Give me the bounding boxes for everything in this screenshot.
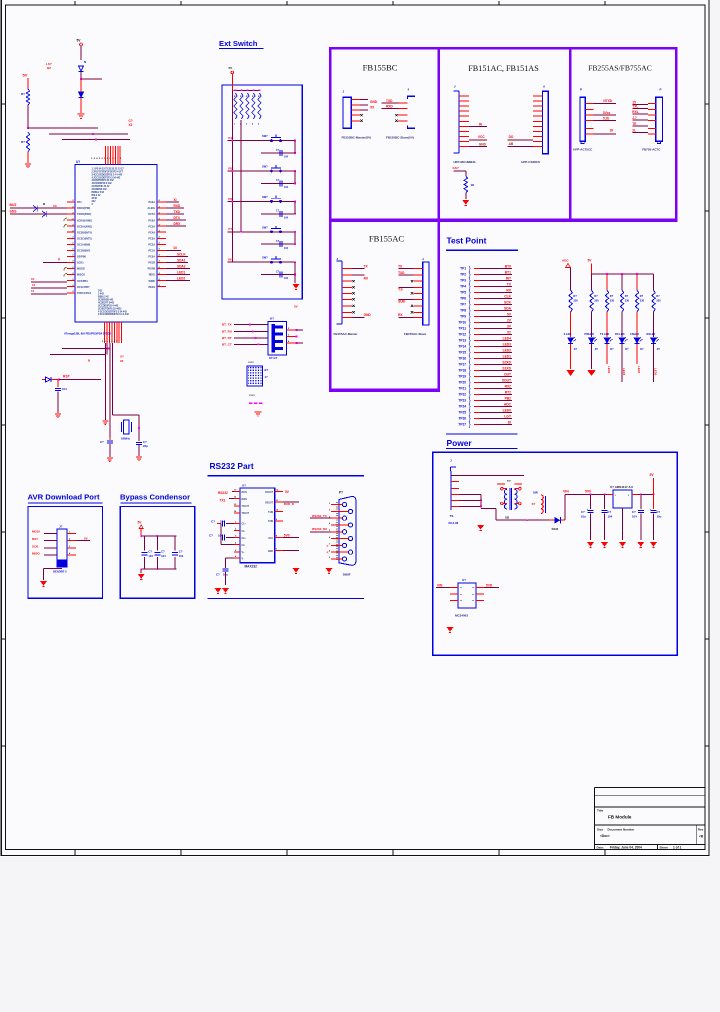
microcontroller U1 ATmega128 body bbox=[75, 165, 157, 323]
svg-text:DI: DI bbox=[610, 128, 613, 132]
resistor R5 bbox=[590, 290, 593, 312]
svg-text:INT: INT bbox=[506, 277, 511, 281]
LED D7 bbox=[619, 337, 627, 343]
svg-text:K?: K? bbox=[270, 317, 274, 321]
title block frame bbox=[595, 787, 705, 849]
section bottom line bbox=[208, 598, 365, 600]
svg-text:SDA1: SDA1 bbox=[177, 258, 186, 262]
svg-text:104: 104 bbox=[284, 247, 289, 250]
wire bbox=[653, 312, 655, 337]
svg-text:RS232: RS232 bbox=[218, 491, 228, 495]
pin bbox=[451, 481, 459, 483]
svg-text:MC34063: MC34063 bbox=[455, 614, 468, 618]
wire PD7 bbox=[31, 293, 67, 295]
wire bbox=[80, 79, 82, 92]
svg-text:C?: C? bbox=[657, 510, 661, 514]
svg-text:D?: D? bbox=[657, 348, 661, 351]
pin bbox=[459, 130, 469, 132]
wire bbox=[310, 517, 331, 519]
svg-text:RS232_RX: RS232_RX bbox=[312, 527, 327, 531]
svg-text:MOSI: MOSI bbox=[32, 530, 40, 534]
svg-text:104: 104 bbox=[62, 387, 67, 391]
svg-text:BT_RT: BT_RT bbox=[222, 336, 232, 340]
Bypass box bbox=[120, 506, 194, 598]
wire bbox=[27, 152, 29, 163]
svg-text:330: 330 bbox=[573, 299, 578, 303]
capacitor C11 bbox=[280, 180, 282, 186]
wire bbox=[480, 412, 512, 414]
pin bbox=[342, 274, 352, 276]
svg-text:10u: 10u bbox=[657, 515, 662, 519]
wire bbox=[436, 587, 450, 589]
svg-text:TP8: TP8 bbox=[460, 309, 466, 313]
svg-text:Date:: Date: bbox=[597, 846, 605, 850]
wire bbox=[28, 127, 98, 129]
pin bbox=[533, 105, 543, 107]
capacitor C20 bbox=[174, 536, 176, 551]
svg-text:R2IN: R2IN bbox=[242, 499, 248, 501]
svg-text:R?: R? bbox=[640, 294, 644, 298]
svg-text:C?: C? bbox=[276, 240, 280, 243]
ground bbox=[587, 542, 594, 547]
pin bbox=[414, 298, 423, 300]
svg-text:RX LED: RX LED bbox=[615, 332, 625, 336]
svg-text:HEADER 5: HEADER 5 bbox=[53, 570, 67, 574]
svg-text:BUZ: BUZ bbox=[10, 203, 17, 207]
svg-text:DO: DO bbox=[509, 135, 514, 139]
svg-text:HFP-MC183BXL: HFP-MC183BXL bbox=[454, 160, 477, 164]
wire bbox=[480, 364, 512, 366]
svg-text:FB155AC: FB155AC bbox=[369, 234, 405, 244]
ground bbox=[215, 588, 222, 593]
svg-text:+: + bbox=[650, 507, 652, 511]
svg-text:330: 330 bbox=[625, 299, 630, 303]
LED D5 bbox=[589, 337, 597, 343]
svg-text:T?: T? bbox=[507, 479, 511, 483]
svg-text:C?: C? bbox=[179, 550, 183, 554]
vertical bus wire 1 bbox=[231, 90, 233, 262]
wire bbox=[636, 344, 638, 364]
pin bbox=[450, 587, 458, 589]
wire bbox=[606, 344, 608, 364]
wire bbox=[459, 499, 481, 501]
U1 left pins bbox=[67, 202, 75, 293]
svg-text:TP25: TP25 bbox=[458, 411, 466, 415]
svg-text:}: } bbox=[469, 423, 471, 429]
wire bbox=[594, 133, 617, 135]
svg-text:PEN1: PEN1 bbox=[148, 286, 155, 289]
svg-text:LED4: LED4 bbox=[503, 337, 512, 341]
svg-text:5V: 5V bbox=[23, 73, 28, 78]
wire bottom rail bbox=[141, 568, 176, 570]
pin bbox=[648, 128, 656, 130]
svg-text:N: N bbox=[84, 60, 86, 64]
ground bbox=[462, 200, 469, 205]
svg-text:OC3B/(INT4): OC3B/(INT4) bbox=[77, 231, 92, 234]
svg-text:11: 11 bbox=[32, 283, 36, 287]
ground bbox=[40, 581, 47, 586]
LED D6 bbox=[604, 337, 612, 343]
pin bbox=[451, 494, 459, 496]
wire SDA2 bbox=[166, 268, 190, 270]
svg-text:P5: P5 bbox=[228, 166, 232, 170]
svg-text:11: 11 bbox=[31, 289, 35, 293]
ground bbox=[447, 627, 454, 632]
svg-text:330: 330 bbox=[656, 299, 661, 303]
pin bbox=[342, 286, 352, 288]
title underline bbox=[446, 249, 518, 251]
wire bbox=[221, 544, 234, 546]
svg-text:MAX232: MAX232 bbox=[245, 565, 258, 569]
ground bbox=[222, 588, 229, 593]
svg-text:5Vcc: 5Vcc bbox=[603, 111, 611, 115]
svg-text:T.b: T.b bbox=[398, 287, 402, 291]
svg-text:SW?: SW? bbox=[262, 225, 268, 229]
wire bbox=[480, 352, 512, 354]
svg-text:TP20: TP20 bbox=[458, 381, 466, 385]
svg-text:SCLK: SCLK bbox=[177, 252, 186, 256]
wire bbox=[632, 104, 648, 106]
svg-text:XI: XI bbox=[174, 198, 177, 202]
section divider line bbox=[446, 433, 518, 435]
svg-text:1 4 4 5 2 5 2 6 2 5 3 4: 1 4 4 5 2 5 2 6 2 5 3 4 bbox=[91, 157, 122, 160]
svg-text:AVR Download Port: AVR Download Port bbox=[28, 493, 100, 502]
svg-text:RST: RST bbox=[32, 537, 38, 541]
wire bottom rail bbox=[496, 519, 532, 521]
wire DI bbox=[166, 249, 181, 251]
svg-text:LED1: LED1 bbox=[503, 355, 512, 359]
svg-text:104: 104 bbox=[608, 515, 613, 519]
svg-text:P: P bbox=[580, 88, 582, 92]
wire bbox=[283, 537, 299, 539]
capacitor C13 bbox=[640, 494, 642, 509]
ground bbox=[587, 370, 595, 376]
wire BUZ to U1 bbox=[10, 207, 67, 209]
svg-text:16MHz: 16MHz bbox=[121, 437, 130, 441]
wire bbox=[480, 268, 512, 270]
svg-text:5V0: 5V0 bbox=[284, 533, 290, 537]
svg-text:RD/G: RD/G bbox=[149, 274, 155, 277]
svg-text:PC6A: PC6A bbox=[148, 219, 155, 222]
svg-text:C?: C? bbox=[148, 550, 152, 554]
ground bbox=[293, 568, 300, 573]
svg-text:FB155BC-Slave(5V): FB155BC-Slave(5V) bbox=[386, 136, 414, 140]
vertical bus wire 2 bbox=[240, 120, 242, 232]
svg-text:P: P bbox=[660, 88, 662, 92]
resistor R3 bbox=[464, 176, 467, 193]
svg-text:TP27: TP27 bbox=[458, 423, 466, 427]
svg-text:LED3: LED3 bbox=[503, 343, 512, 347]
module box frame purple bbox=[329, 47, 677, 392]
svg-text:T2OUT: T2OUT bbox=[242, 513, 250, 515]
switch row 5 wire bbox=[228, 261, 296, 263]
resistor R6 bbox=[605, 290, 608, 312]
svg-text:C2+: C2+ bbox=[242, 538, 247, 540]
ground bbox=[255, 412, 262, 416]
svg-text:BT0: BT0 bbox=[505, 265, 511, 269]
svg-text:R?: R? bbox=[625, 294, 629, 298]
diode D2 bbox=[79, 92, 84, 97]
svg-text:DI: DI bbox=[174, 246, 177, 250]
pin bbox=[234, 551, 240, 553]
ground bbox=[293, 284, 300, 289]
svg-text:U?: U? bbox=[242, 484, 246, 488]
svg-text:Power: Power bbox=[447, 438, 473, 448]
pin bbox=[351, 114, 360, 116]
svg-text:Document Number: Document Number bbox=[608, 827, 636, 831]
svg-text:TP23: TP23 bbox=[458, 399, 466, 403]
pin bbox=[585, 114, 593, 116]
title underline bbox=[120, 502, 191, 504]
pin bbox=[459, 141, 469, 143]
wire bbox=[480, 495, 482, 507]
svg-text:TP9: TP9 bbox=[460, 315, 466, 319]
wire bbox=[294, 201, 296, 213]
pin bbox=[533, 130, 543, 132]
svg-text:C2-: C2- bbox=[242, 545, 246, 547]
wire bbox=[294, 232, 296, 244]
LED D8 bbox=[634, 337, 642, 343]
wire bbox=[480, 286, 512, 288]
crystal Y1 bbox=[124, 420, 130, 434]
svg-text:5V: 5V bbox=[229, 66, 233, 70]
wire output rail bbox=[638, 493, 654, 495]
svg-text:C?: C? bbox=[216, 573, 220, 577]
svg-text:Friday, June 04, 2004: Friday, June 04, 2004 bbox=[610, 846, 642, 850]
svg-text:LED2: LED2 bbox=[177, 276, 185, 280]
svg-text:TP10: TP10 bbox=[458, 321, 466, 325]
pin bbox=[234, 544, 240, 546]
svg-text:SCK: SCK bbox=[504, 301, 512, 305]
pin bbox=[648, 109, 656, 111]
wire bbox=[591, 312, 593, 337]
pin bbox=[533, 115, 543, 117]
svg-text:PC3A: PC3A bbox=[148, 237, 155, 240]
svg-text:P6: P6 bbox=[228, 197, 232, 201]
svg-text:PA3A: PA3A bbox=[149, 201, 156, 204]
capacitor C12 bbox=[604, 494, 606, 509]
wire LED2 bbox=[166, 280, 190, 282]
svg-text:LED2: LED2 bbox=[607, 366, 611, 374]
svg-text:GS?: GS? bbox=[453, 166, 459, 170]
wire bbox=[226, 557, 235, 559]
wire bbox=[508, 146, 533, 148]
svg-text:RS232 Part: RS232 Part bbox=[210, 461, 254, 471]
wire bbox=[469, 146, 487, 148]
svg-text:Bypass Condensor: Bypass Condensor bbox=[120, 493, 190, 502]
svg-text:GND: GND bbox=[370, 100, 378, 104]
svg-text:TP1: TP1 bbox=[460, 267, 466, 271]
wire bbox=[80, 46, 82, 60]
pin bbox=[342, 317, 352, 319]
wire 5V out bbox=[282, 491, 284, 493]
switch row 2 wire bbox=[228, 170, 296, 172]
svg-text:104: 104 bbox=[284, 156, 289, 159]
wire bbox=[632, 125, 648, 127]
capacitor C14 bbox=[280, 272, 282, 278]
wire resistor bus bbox=[234, 89, 260, 91]
wire bbox=[480, 370, 512, 372]
wire bbox=[480, 328, 512, 330]
wire bbox=[229, 498, 234, 500]
pin bbox=[451, 488, 459, 490]
capacitor C12 bbox=[280, 211, 282, 217]
pin bbox=[275, 511, 283, 513]
wire bbox=[480, 280, 512, 282]
pin bbox=[459, 135, 469, 137]
capacitor C6 bbox=[136, 442, 142, 444]
svg-text:R?: R? bbox=[594, 294, 598, 298]
svg-text:TX1: TX1 bbox=[220, 498, 226, 502]
Ext Switch box bbox=[222, 85, 302, 299]
pin bbox=[459, 146, 469, 148]
T1 pin stubs bbox=[497, 484, 522, 504]
wire bbox=[49, 133, 128, 135]
svg-text:PWLED: PWLED bbox=[585, 332, 594, 336]
wire bbox=[465, 193, 467, 199]
pin bbox=[234, 557, 240, 559]
pin bbox=[585, 109, 593, 111]
pin bbox=[533, 141, 543, 143]
svg-text:RXD: RXD bbox=[386, 105, 393, 109]
no-connect marks bbox=[249, 403, 262, 405]
capacitor C7 bbox=[109, 437, 111, 440]
ESD diode pair D6 bbox=[33, 206, 46, 218]
svg-text:5V: 5V bbox=[294, 305, 298, 309]
wire DRX bbox=[166, 225, 186, 227]
wire RXD bbox=[166, 207, 184, 209]
pin bbox=[451, 499, 459, 501]
svg-text:FB155BC: FB155BC bbox=[363, 63, 398, 73]
svg-text:ADC: ADC bbox=[562, 259, 569, 263]
svg-text:2L: 2L bbox=[632, 129, 636, 133]
pin bbox=[476, 600, 484, 602]
ground bbox=[138, 574, 145, 579]
svg-text:C1-: C1- bbox=[242, 531, 246, 533]
svg-text:X?: X? bbox=[120, 355, 124, 359]
pin bbox=[342, 280, 352, 282]
wire X to U1 bbox=[43, 262, 67, 264]
svg-text:C?: C? bbox=[276, 149, 280, 152]
ground bbox=[102, 421, 108, 425]
svg-text:5V: 5V bbox=[650, 473, 655, 477]
wire bbox=[27, 78, 29, 89]
ground bbox=[25, 164, 31, 168]
svg-text:LED0: LED0 bbox=[503, 409, 512, 413]
svg-text:R2OUT: R2OUT bbox=[265, 502, 273, 504]
svg-text:C?: C? bbox=[632, 510, 636, 514]
svg-text:LED2: LED2 bbox=[503, 349, 512, 353]
pin bbox=[342, 311, 352, 313]
svg-text:LED1: LED1 bbox=[177, 270, 185, 274]
svg-text:C1+: C1+ bbox=[242, 524, 247, 526]
pin bbox=[533, 100, 543, 102]
svg-text:S?: S? bbox=[532, 502, 536, 506]
wire bbox=[232, 491, 234, 493]
wire SND to U1 bbox=[10, 213, 67, 215]
wire bbox=[480, 388, 512, 390]
svg-text:C?: C? bbox=[209, 534, 213, 538]
svg-text:TP21: TP21 bbox=[458, 387, 466, 391]
wire bbox=[294, 262, 296, 274]
svg-text:104: 104 bbox=[284, 186, 289, 189]
svg-text:Sheet: Sheet bbox=[660, 846, 668, 850]
svg-text:TP24: TP24 bbox=[458, 405, 466, 409]
capacitor C5 bbox=[57, 380, 59, 388]
J11 right pins bbox=[67, 532, 76, 534]
svg-text:PA1: PA1 bbox=[77, 201, 82, 204]
svg-text:FB Module: FB Module bbox=[608, 815, 632, 820]
svg-text:HFP-CS28CS: HFP-CS28CS bbox=[521, 160, 540, 164]
svg-text:DTX: DTX bbox=[174, 216, 181, 220]
svg-text:<: < bbox=[327, 544, 329, 548]
svg-text:TP14: TP14 bbox=[458, 345, 466, 349]
capacitor row 3 wire bbox=[261, 213, 295, 215]
svg-text:VIN: VIN bbox=[563, 489, 569, 493]
svg-text:PC4A: PC4A bbox=[148, 231, 155, 234]
svg-text:BT_CT: BT_CT bbox=[222, 343, 232, 347]
wire bbox=[480, 304, 512, 306]
svg-text:TXL: TXL bbox=[632, 105, 638, 109]
ground bbox=[326, 568, 333, 573]
wire bbox=[76, 540, 90, 542]
svg-text:TE: TE bbox=[632, 122, 636, 126]
svg-text:104: 104 bbox=[148, 554, 153, 558]
capacitor C19 bbox=[156, 536, 158, 551]
pin bbox=[648, 119, 656, 121]
svg-text:RX2: RX2 bbox=[505, 385, 512, 389]
svg-text:LED4: LED4 bbox=[637, 366, 641, 374]
wire bbox=[62, 139, 130, 141]
pin bbox=[414, 267, 423, 269]
pin bbox=[275, 550, 283, 552]
wire PD5 bbox=[31, 281, 67, 283]
pin bbox=[234, 537, 240, 539]
svg-text:RXLED: RXLED bbox=[647, 332, 656, 336]
wire bbox=[632, 113, 648, 115]
svg-text:SS34: SS34 bbox=[552, 527, 559, 531]
ground bbox=[566, 370, 574, 376]
ground bbox=[650, 542, 657, 547]
K1 right pins bbox=[287, 329, 297, 331]
svg-text:TP2: TP2 bbox=[460, 273, 466, 277]
svg-text:D?: D? bbox=[574, 348, 578, 351]
svg-text:CNLED: CNLED bbox=[630, 332, 639, 336]
svg-text:ADC: ADC bbox=[504, 403, 512, 407]
pull-up resistor bank RN1 bbox=[235, 89, 237, 91]
svg-text:TP17: TP17 bbox=[458, 363, 466, 367]
svg-text:5V: 5V bbox=[84, 537, 88, 541]
svg-text:PC1A: PC1A bbox=[148, 250, 155, 253]
capacitor C17 electrolytic bbox=[223, 569, 229, 571]
ground bbox=[477, 525, 484, 530]
svg-text:22p: 22p bbox=[143, 444, 148, 448]
Power box bbox=[433, 452, 677, 655]
svg-text:MISO: MISO bbox=[32, 551, 40, 555]
svg-text:SDA: SDA bbox=[504, 307, 512, 311]
pin bbox=[414, 317, 423, 319]
pin bbox=[585, 102, 593, 104]
wire to ground bbox=[294, 275, 296, 283]
svg-text:TXD: TXD bbox=[398, 271, 405, 275]
svg-text:5V0: 5V0 bbox=[585, 489, 591, 493]
svg-text:VCC: VCC bbox=[478, 135, 485, 139]
U1 right pins bbox=[157, 202, 166, 287]
LED D4 bbox=[568, 337, 576, 343]
wire bbox=[310, 531, 331, 533]
svg-text:FB155BC-Master(5V): FB155BC-Master(5V) bbox=[342, 136, 372, 140]
wire bbox=[480, 292, 512, 294]
